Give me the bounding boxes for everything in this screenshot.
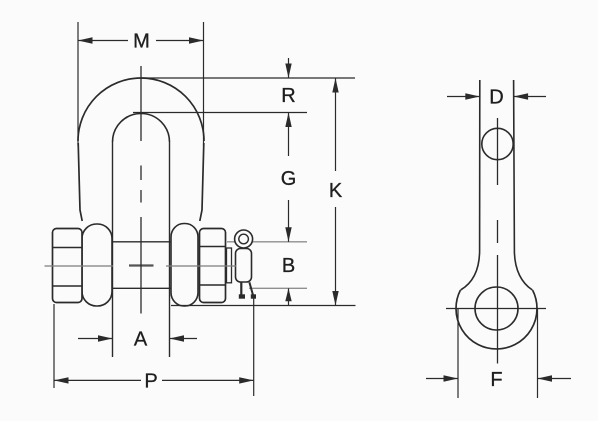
right eye boss [171, 224, 198, 307]
pin axis centerline [45, 265, 237, 268]
side view vertical centerline [497, 118, 499, 364]
svg-text:G: G [281, 168, 297, 190]
side view bow section circle [482, 128, 513, 159]
bolt head (left hex) [53, 229, 83, 303]
side view bar left edge [461, 80, 480, 290]
shackle pin bottom line [110, 287, 171, 289]
reference line inner bow top (R/G datum) [133, 112, 307, 114]
left leg inner edge and A extension [112, 142, 114, 357]
side view eye outer circle [456, 290, 537, 349]
shackle vertical centerline [140, 66, 142, 314]
svg-text:F: F [490, 369, 502, 391]
dimension G [281, 113, 297, 242]
side view bar right edge [514, 80, 533, 290]
svg-text:P: P [144, 371, 157, 393]
svg-text:K: K [329, 180, 343, 202]
extension line B top (pin top tangent) [227, 241, 307, 243]
svg-text:M: M [133, 31, 150, 53]
dimension K [329, 78, 343, 306]
dimension D [447, 87, 546, 109]
dimension M [78, 22, 204, 146]
cotter pin ring [235, 230, 253, 248]
svg-text:B: B [282, 255, 295, 277]
svg-text:A: A [134, 329, 148, 351]
right leg inner edge and A extension [169, 142, 171, 357]
side view pin hole circle [475, 287, 518, 330]
dimension A [78, 329, 197, 351]
left eye boss [82, 224, 112, 306]
shackle pin top line [110, 241, 171, 243]
dimension B [282, 255, 295, 305]
svg-text:D: D [489, 87, 503, 109]
bottom reference line (K datum) [171, 305, 356, 307]
dimension F [426, 309, 571, 399]
extension line B bottom (pin bottom tangent) [249, 287, 307, 289]
hex nut (right) [200, 229, 226, 303]
dimension R [281, 58, 295, 107]
left leg outer edge [78, 143, 82, 221]
dimension P [54, 295, 254, 396]
cotter pin legs [239, 282, 256, 299]
cotter pin body [236, 249, 252, 283]
svg-text:R: R [281, 85, 295, 107]
side view horizontal centerline [446, 308, 546, 310]
reference line top of bow (K/R datum) [141, 77, 355, 79]
right leg outer edge [200, 143, 204, 221]
shackle bow outer arc [78, 78, 204, 141]
bolt end stub [227, 248, 232, 283]
shackle bow inner arc [113, 114, 170, 143]
